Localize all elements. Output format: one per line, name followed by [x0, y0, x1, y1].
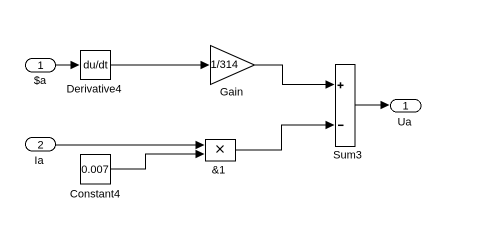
- svg-text:1: 1: [37, 60, 43, 72]
- svg-text:Ua: Ua: [397, 117, 412, 129]
- svg-text:2: 2: [37, 140, 43, 152]
- wire input2 to product &1: [56, 141, 205, 149]
- output port 1 (Ua): [391, 100, 422, 129]
- svg-text:$a: $a: [34, 75, 47, 87]
- block Derivative4 (du/dt): [66, 51, 121, 96]
- wire Sum3 to output port: [356, 101, 390, 109]
- svg-text:&1: &1: [212, 165, 225, 177]
- svg-text:0.007: 0.007: [81, 164, 109, 176]
- svg-text:1/314: 1/314: [211, 59, 239, 71]
- wire Derivative4 to Gain: [111, 61, 210, 69]
- wire Constant4 to product &1: [111, 150, 205, 169]
- wire product &1 to Sum3 minus input: [236, 121, 335, 150]
- constant block Constant4 (0.007): [70, 155, 120, 201]
- wire input1 to Derivative4: [56, 61, 80, 69]
- svg-text:Constant4: Constant4: [70, 189, 120, 201]
- svg-text:Gain: Gain: [220, 87, 243, 99]
- gain block Gain (1/314): [211, 46, 255, 99]
- product block &1: [206, 140, 236, 177]
- svg-text:1: 1: [402, 101, 408, 113]
- svg-text:Derivative4: Derivative4: [66, 84, 121, 96]
- svg-text:du/dt: du/dt: [83, 60, 107, 72]
- svg-text:Sum3: Sum3: [333, 150, 362, 162]
- input port 1 ($a): [26, 59, 56, 88]
- svg-text:Ia: Ia: [34, 155, 44, 167]
- sum block Sum3: [333, 65, 362, 162]
- wire Gain to Sum3 plus input: [255, 65, 335, 89]
- input port 2 (Ia): [26, 138, 56, 168]
